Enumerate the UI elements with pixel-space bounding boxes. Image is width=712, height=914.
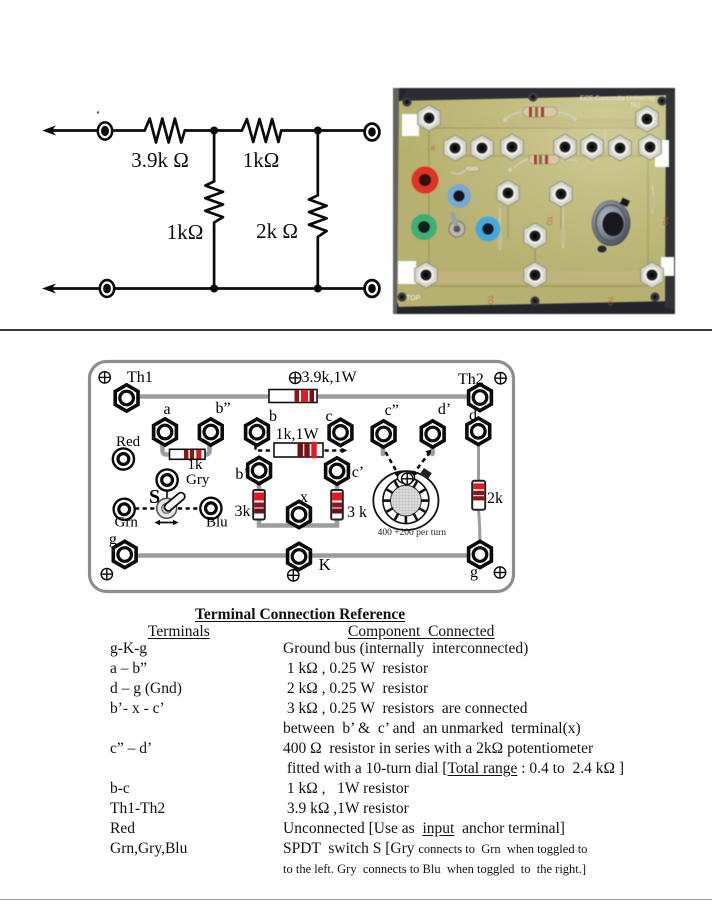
separator line under figures bbox=[0, 329, 712, 331]
svg-text:3 k: 3 k bbox=[347, 504, 367, 521]
corner hole bottom-left bbox=[101, 568, 112, 579]
big knob (potentiometer) bbox=[592, 200, 631, 246]
svg-text:TO: TO bbox=[545, 216, 552, 226]
terminal g left bbox=[113, 541, 136, 567]
dark frame right bbox=[665, 92, 675, 310]
bottom page rule bbox=[0, 899, 712, 900]
white stickers bbox=[402, 114, 419, 136]
dashed link 1k,1W resistor to c (arrow) bbox=[325, 449, 343, 451]
svg-text:c’: c’ bbox=[352, 464, 364, 481]
svg-text:Th2: Th2 bbox=[630, 103, 641, 109]
blue jack 2 bbox=[476, 217, 501, 242]
svg-text:c”: c” bbox=[385, 402, 399, 419]
wire: vertical branch at node B bbox=[316, 131, 319, 196]
resistor top (3.9k) bbox=[503, 107, 577, 122]
board outline bbox=[90, 362, 514, 592]
resistor R4 2k ohm (vertical zigzag) bbox=[309, 195, 327, 244]
svg-text:1kΩ: 1kΩ bbox=[167, 220, 204, 244]
svg-text:TO: TO bbox=[606, 296, 613, 306]
terminal top-right bbox=[365, 124, 380, 141]
svg-text:d: d bbox=[469, 407, 477, 424]
terminal Th1 bbox=[115, 385, 138, 411]
corner hole top-right bbox=[495, 373, 506, 384]
TABLE TEXT bbox=[195, 606, 405, 624]
wire: bottom ground bus g-K-g bbox=[125, 553, 479, 558]
jack Blu bbox=[200, 498, 221, 519]
resistor 2k (vertical) bbox=[472, 481, 485, 510]
svg-text:Gry: Gry bbox=[186, 472, 210, 488]
svg-text:x: x bbox=[300, 489, 308, 506]
arrowhead left of bottom rail bbox=[42, 284, 56, 294]
svg-text:Grn: Grn bbox=[115, 515, 139, 531]
svg-text:2k Ω: 2k Ω bbox=[256, 219, 298, 243]
dark frame left bbox=[393, 88, 399, 314]
resistor 1k,1W body bbox=[274, 442, 323, 459]
wire: bottom rail bbox=[47, 287, 366, 290]
svg-text:ECE Concordia University: ECE Concordia University bbox=[580, 95, 656, 102]
resistor 3k right (vertical) bbox=[331, 490, 343, 520]
svg-text:TO: TO bbox=[486, 295, 493, 305]
dashed link Grn to switch bbox=[135, 507, 156, 509]
svg-text:TOP: TOP bbox=[406, 295, 421, 302]
wire: vertical branch lower of R4 bbox=[316, 245, 319, 289]
red jack bbox=[412, 167, 439, 194]
terminal g right bbox=[469, 541, 492, 567]
wire: a down to 1k resistor bbox=[163, 440, 172, 455]
corner hole top-left bbox=[99, 372, 110, 383]
small resistor between a and b'' bbox=[451, 166, 479, 174]
blue jack 1 bbox=[447, 184, 471, 208]
small parts near x and pot bbox=[500, 130, 654, 250]
terminal d bbox=[467, 418, 490, 444]
dark frame top bbox=[393, 88, 675, 101]
terminal d' bbox=[421, 421, 444, 447]
terminal x bbox=[288, 501, 311, 527]
terminal c'' bbox=[372, 421, 395, 447]
svg-text:400 +200 per turn: 400 +200 per turn bbox=[378, 528, 447, 538]
toggle switch bbox=[449, 221, 465, 237]
wire: top rail right segment bbox=[281, 129, 366, 132]
terminal K bbox=[288, 543, 311, 569]
double arrow under switch bbox=[157, 522, 176, 524]
corner hole bottom-right bbox=[494, 567, 505, 578]
terminal b bbox=[246, 419, 269, 445]
pot tab (black square) bbox=[420, 468, 432, 479]
svg-text:Red: Red bbox=[116, 434, 141, 450]
potentiometer bbox=[373, 450, 446, 539]
resistor mid (1k,1W) bbox=[508, 155, 577, 172]
resistor 1k (a-b'') body bbox=[170, 449, 206, 459]
terminal b'' bbox=[199, 419, 222, 445]
svg-text:1k: 1k bbox=[188, 457, 204, 473]
svg-text:3.9k Ω: 3.9k Ω bbox=[131, 148, 189, 172]
wire: vertical branch at node A bbox=[213, 131, 216, 182]
dashed link d' to potentiometer (arrow) bbox=[414, 452, 430, 473]
svg-text:3k: 3k bbox=[235, 503, 251, 520]
svg-text:Blu: Blu bbox=[206, 515, 228, 531]
wire: c'' stub down bbox=[381, 441, 386, 454]
svg-text:a: a bbox=[431, 145, 435, 152]
dashed link c'' to potentiometer (arrow) bbox=[386, 452, 399, 474]
faint trace lines bbox=[423, 128, 653, 286]
wire: top rail left segment bbox=[47, 129, 145, 132]
gray bus wires bbox=[125, 397, 480, 556]
wire: top bus 3.9k resistor to Th2 bbox=[317, 394, 474, 399]
wire: 3k bottom bus to x to 3k bbox=[259, 518, 337, 526]
wire: d down to 2k resistor bbox=[477, 437, 480, 482]
terminal b' bbox=[248, 457, 271, 483]
svg-text:b”: b” bbox=[215, 400, 230, 417]
svg-text:1kΩ: 1kΩ bbox=[243, 148, 280, 172]
resistor 3.9k,1W body bbox=[269, 390, 317, 403]
svg-text:TO: TO bbox=[661, 216, 668, 226]
node A' bottom junction dot bbox=[210, 285, 218, 293]
jack Grn bbox=[114, 499, 135, 520]
svg-text:1k,1W: 1k,1W bbox=[275, 426, 319, 443]
SCHEMATIC: ladder network figure bbox=[0, 80, 400, 310]
resistor R1 3.9k ohm (horizontal zigzag) bbox=[145, 119, 185, 143]
svg-text:2k: 2k bbox=[487, 490, 503, 507]
svg-text:b’: b’ bbox=[235, 466, 248, 483]
terminal top-left (double circle) bbox=[98, 122, 112, 139]
terminal bottom-left bbox=[100, 280, 114, 297]
svg-text:a: a bbox=[163, 401, 170, 418]
svg-text:b: b bbox=[269, 408, 277, 425]
dashed link b to 1k,1W resistor bbox=[256, 446, 272, 451]
node A junction dot bbox=[210, 127, 218, 135]
jack Gry bbox=[157, 469, 178, 490]
BOARD DIAGRAM: terminal board layout figure bbox=[86, 353, 518, 599]
svg-text:Th1: Th1 bbox=[127, 369, 153, 386]
switch S with lever bbox=[149, 486, 186, 525]
pot shaft circle and hole bbox=[397, 472, 414, 484]
wire: top bus Th1 to 3.9k resistor bbox=[133, 394, 269, 399]
wire: 2k resistor down to right g bbox=[479, 508, 481, 550]
svg-text:c: c bbox=[325, 408, 332, 425]
terminal Th2 bbox=[469, 384, 492, 410]
wire: c' down to 3k resistor bbox=[335, 477, 340, 491]
terminal c bbox=[329, 419, 352, 445]
wire: b' down to 3k resistor bbox=[257, 477, 262, 491]
svg-text:S: S bbox=[149, 486, 160, 508]
arrowhead left of top rail bbox=[42, 126, 56, 136]
svg-text:d’: d’ bbox=[438, 401, 451, 418]
screws bbox=[402, 97, 411, 106]
resistor R2 1k ohm (horizontal zigzag) bbox=[242, 119, 281, 142]
resistor 3k left (vertical) bbox=[253, 490, 265, 520]
svg-text:Th2: Th2 bbox=[458, 371, 484, 388]
wire: top rail middle segment bbox=[185, 129, 242, 132]
stray dot mark bbox=[97, 111, 99, 113]
hole left of 3.9k label bbox=[290, 372, 301, 383]
terminal a bbox=[154, 419, 177, 445]
green jack bbox=[411, 214, 437, 240]
svg-text:K: K bbox=[319, 555, 332, 574]
node B junction dot bbox=[314, 127, 322, 135]
PHOTO: circuit board photograph (approximation) bbox=[393, 88, 675, 314]
dark frame bottom bbox=[393, 301, 675, 314]
terminal bottom-right bbox=[365, 280, 380, 297]
jack Red bbox=[113, 448, 134, 469]
svg-text:g: g bbox=[109, 531, 117, 548]
resistor R3 1k ohm (vertical zigzag) bbox=[205, 181, 223, 230]
svg-text:g: g bbox=[470, 564, 478, 581]
hole below K bbox=[288, 570, 299, 581]
hex nuts bbox=[418, 105, 441, 131]
wire: vertical branch lower of R3 bbox=[213, 230, 216, 289]
wire: b'' down to 1k resistor bbox=[203, 440, 210, 455]
board base bbox=[393, 88, 675, 314]
terminal c' bbox=[326, 458, 349, 484]
svg-text:3.9k,1W: 3.9k,1W bbox=[302, 369, 358, 386]
wire: d' stub down bbox=[430, 441, 435, 454]
orange silk marks bbox=[431, 145, 668, 306]
node B' bottom junction dot bbox=[314, 285, 322, 293]
dashed link switch to Blu bbox=[178, 507, 200, 509]
